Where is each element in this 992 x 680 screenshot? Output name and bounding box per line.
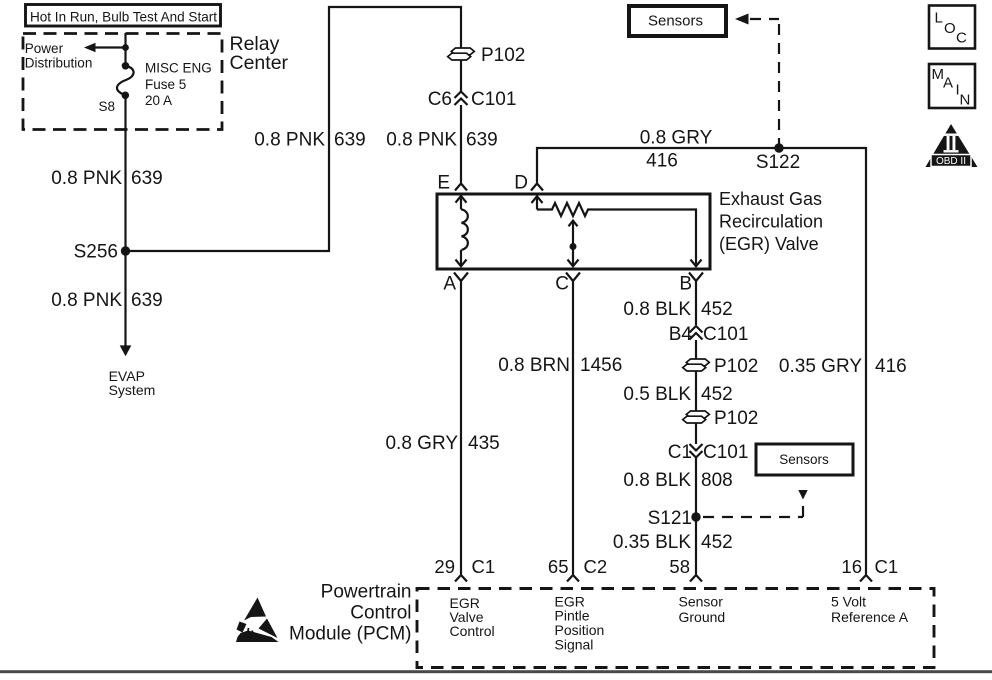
svg-text:416: 416 bbox=[875, 356, 907, 377]
pin B bbox=[679, 273, 703, 295]
svg-text:C101: C101 bbox=[471, 89, 516, 110]
svg-text:P102: P102 bbox=[714, 408, 758, 429]
svg-text:Recirculation: Recirculation bbox=[719, 212, 823, 232]
svg-text:Power: Power bbox=[25, 41, 64, 56]
svg-text:C: C bbox=[555, 274, 569, 295]
svg-text:452: 452 bbox=[701, 532, 733, 553]
grommet P102 (top) bbox=[448, 45, 526, 66]
splice S256 bbox=[121, 246, 130, 255]
dashed wire S121 to sensors arrow bbox=[703, 490, 808, 517]
grommet P102 (lower) bbox=[683, 408, 759, 429]
relay center dashed box bbox=[23, 34, 222, 130]
wire grommet to connector C1 bbox=[695, 423, 697, 444]
wire S256 branch up and over to grommet bbox=[126, 7, 462, 251]
svg-text:S8: S8 bbox=[98, 99, 115, 114]
svg-text:639: 639 bbox=[131, 168, 163, 189]
svg-text:B4: B4 bbox=[669, 324, 693, 345]
LOC symbol bbox=[929, 6, 975, 49]
wire feed into fuse bbox=[124, 33, 126, 66]
pin E bbox=[437, 173, 467, 194]
EGR valve box bbox=[437, 194, 710, 269]
svg-text:0.35 BLK: 0.35 BLK bbox=[613, 532, 691, 553]
svg-text:0.8 PNK: 0.8 PNK bbox=[386, 130, 457, 151]
PCM pin 65 C2 bbox=[548, 556, 607, 582]
pin D bbox=[514, 173, 543, 194]
svg-text:MISC ENG: MISC ENG bbox=[145, 61, 212, 76]
svg-text:0.8 PNK: 0.8 PNK bbox=[254, 130, 325, 151]
svg-text:435: 435 bbox=[468, 433, 500, 454]
svg-text:Exhaust Gas: Exhaust Gas bbox=[719, 189, 822, 209]
svg-text:65: 65 bbox=[548, 556, 569, 577]
svg-text:P102: P102 bbox=[481, 45, 525, 66]
svg-text:0.8 GRY: 0.8 GRY bbox=[640, 128, 713, 149]
svg-text:Signal: Signal bbox=[555, 637, 594, 653]
svg-text:Hot In Run, Bulb Test And Star: Hot In Run, Bulb Test And Start bbox=[30, 9, 217, 25]
svg-text:P102: P102 bbox=[714, 356, 758, 377]
svg-text:OBD II: OBD II bbox=[936, 156, 966, 167]
bottom rule bbox=[0, 670, 992, 673]
svg-text:(EGR) Valve: (EGR) Valve bbox=[719, 234, 819, 254]
wire 0.8 BLK 808 to S121 bbox=[695, 458, 697, 574]
Sensors box (top) bbox=[629, 6, 726, 36]
wire EGR C to PCM 65 bbox=[572, 281, 574, 574]
svg-text:639: 639 bbox=[334, 130, 366, 151]
svg-text:N: N bbox=[960, 92, 971, 109]
svg-text:16: 16 bbox=[841, 556, 862, 577]
ESD symbol bbox=[236, 598, 279, 643]
svg-text:Control: Control bbox=[450, 623, 495, 639]
svg-text:0.35 GRY: 0.35 GRY bbox=[779, 356, 862, 377]
svg-text:C6: C6 bbox=[428, 89, 452, 110]
title box Hot In Run, Bulb Test And Start bbox=[26, 5, 221, 27]
wire EGR A to PCM 29 bbox=[460, 281, 462, 574]
wire EGR B to connector B4 bbox=[695, 281, 697, 325]
svg-text:S122: S122 bbox=[756, 152, 800, 173]
svg-text:Sensors: Sensors bbox=[648, 13, 703, 30]
svg-text:Ground: Ground bbox=[679, 609, 726, 625]
svg-text:416: 416 bbox=[646, 151, 678, 172]
svg-text:0.8 PNK: 0.8 PNK bbox=[51, 290, 122, 311]
svg-text:0.8 GRY: 0.8 GRY bbox=[385, 433, 458, 454]
svg-text:C1: C1 bbox=[472, 556, 496, 577]
svg-text:Center: Center bbox=[230, 52, 289, 74]
MAIN symbol bbox=[929, 64, 975, 109]
pin A bbox=[443, 273, 468, 295]
svg-text:L: L bbox=[935, 10, 943, 27]
wire 0.8 PNK 639 fuse to S256 bbox=[124, 95, 126, 251]
junction dot bbox=[122, 44, 129, 51]
svg-text:A: A bbox=[443, 274, 456, 295]
EGR solenoid coil bbox=[456, 196, 468, 266]
svg-text:System: System bbox=[109, 382, 156, 398]
svg-text:Control: Control bbox=[350, 603, 411, 624]
svg-text:29: 29 bbox=[434, 556, 455, 577]
svg-text:808: 808 bbox=[701, 470, 733, 491]
svg-text:Sensor: Sensor bbox=[679, 594, 724, 610]
connector C1 C101 (chevrons down) bbox=[668, 442, 749, 463]
svg-text:Fuse 5: Fuse 5 bbox=[145, 77, 186, 92]
dashed wire S122 to Sensors with arrow bbox=[735, 14, 779, 145]
svg-text:O: O bbox=[944, 20, 956, 37]
svg-text:0.5 BLK: 0.5 BLK bbox=[623, 384, 691, 405]
fuse MISC ENG Fuse 5 20 A bbox=[117, 62, 134, 99]
svg-text:Reference A: Reference A bbox=[831, 609, 909, 625]
splice S122 bbox=[774, 143, 783, 152]
PCM dashed box bbox=[417, 589, 934, 668]
PCM pin 16 C1 bbox=[841, 556, 898, 582]
svg-text:639: 639 bbox=[131, 290, 163, 311]
PCM pin 58 bbox=[669, 556, 702, 582]
svg-text:C2: C2 bbox=[584, 556, 608, 577]
svg-text:Powertrain: Powertrain bbox=[321, 582, 412, 603]
svg-text:5 Volt: 5 Volt bbox=[831, 594, 866, 610]
svg-text:452: 452 bbox=[701, 384, 733, 405]
svg-text:C: C bbox=[956, 30, 967, 47]
svg-text:Module (PCM): Module (PCM) bbox=[289, 624, 411, 645]
grommet P102 (middle) bbox=[683, 356, 759, 377]
PCM pin 29 C1 bbox=[434, 556, 495, 582]
svg-text:S256: S256 bbox=[74, 242, 118, 263]
svg-text:639: 639 bbox=[466, 130, 498, 151]
svg-text:A: A bbox=[943, 75, 953, 92]
svg-text:D: D bbox=[514, 173, 528, 194]
svg-text:Sensors: Sensors bbox=[779, 452, 829, 467]
wire grommet to connector C101 bbox=[460, 60, 462, 91]
wire S256 down to EVAP arrow bbox=[120, 251, 132, 356]
svg-text:B: B bbox=[679, 274, 692, 295]
svg-text:0.8 BRN: 0.8 BRN bbox=[498, 355, 570, 376]
connector B4 C101 (chevrons up) bbox=[669, 324, 749, 345]
EGR pintle position resistor bbox=[532, 196, 702, 266]
svg-text:58: 58 bbox=[669, 556, 690, 577]
connector C6 C101 (chevrons up) bbox=[428, 89, 517, 110]
svg-text:0.8 PNK: 0.8 PNK bbox=[51, 168, 122, 189]
potentiometer wiper bbox=[568, 220, 579, 266]
svg-text:20 A: 20 A bbox=[145, 93, 172, 108]
wire B4 to grommet bbox=[695, 340, 697, 359]
svg-text:C1: C1 bbox=[668, 442, 692, 463]
wire EGR pin D to S122 to PCM pin 16 bbox=[537, 148, 866, 574]
svg-text:0.8 BLK: 0.8 BLK bbox=[623, 470, 691, 491]
Sensors box (lower) bbox=[756, 444, 853, 475]
wire C101 to EGR pin E bbox=[460, 105, 462, 183]
svg-text:0.8 BLK: 0.8 BLK bbox=[623, 299, 691, 320]
wire arrow to Power Distribution bbox=[84, 43, 126, 52]
svg-text:Distribution: Distribution bbox=[25, 56, 93, 71]
svg-text:1456: 1456 bbox=[580, 355, 622, 376]
pin C bbox=[555, 273, 580, 295]
svg-text:452: 452 bbox=[701, 299, 733, 320]
svg-text:C1: C1 bbox=[875, 556, 899, 577]
OBD II symbol bbox=[926, 124, 978, 167]
svg-text:C101: C101 bbox=[703, 442, 748, 463]
svg-text:E: E bbox=[437, 173, 450, 194]
splice S121 bbox=[691, 512, 700, 521]
svg-text:C101: C101 bbox=[703, 324, 748, 345]
wire 0.5 BLK 452 bbox=[695, 371, 697, 411]
svg-text:S121: S121 bbox=[648, 508, 692, 529]
